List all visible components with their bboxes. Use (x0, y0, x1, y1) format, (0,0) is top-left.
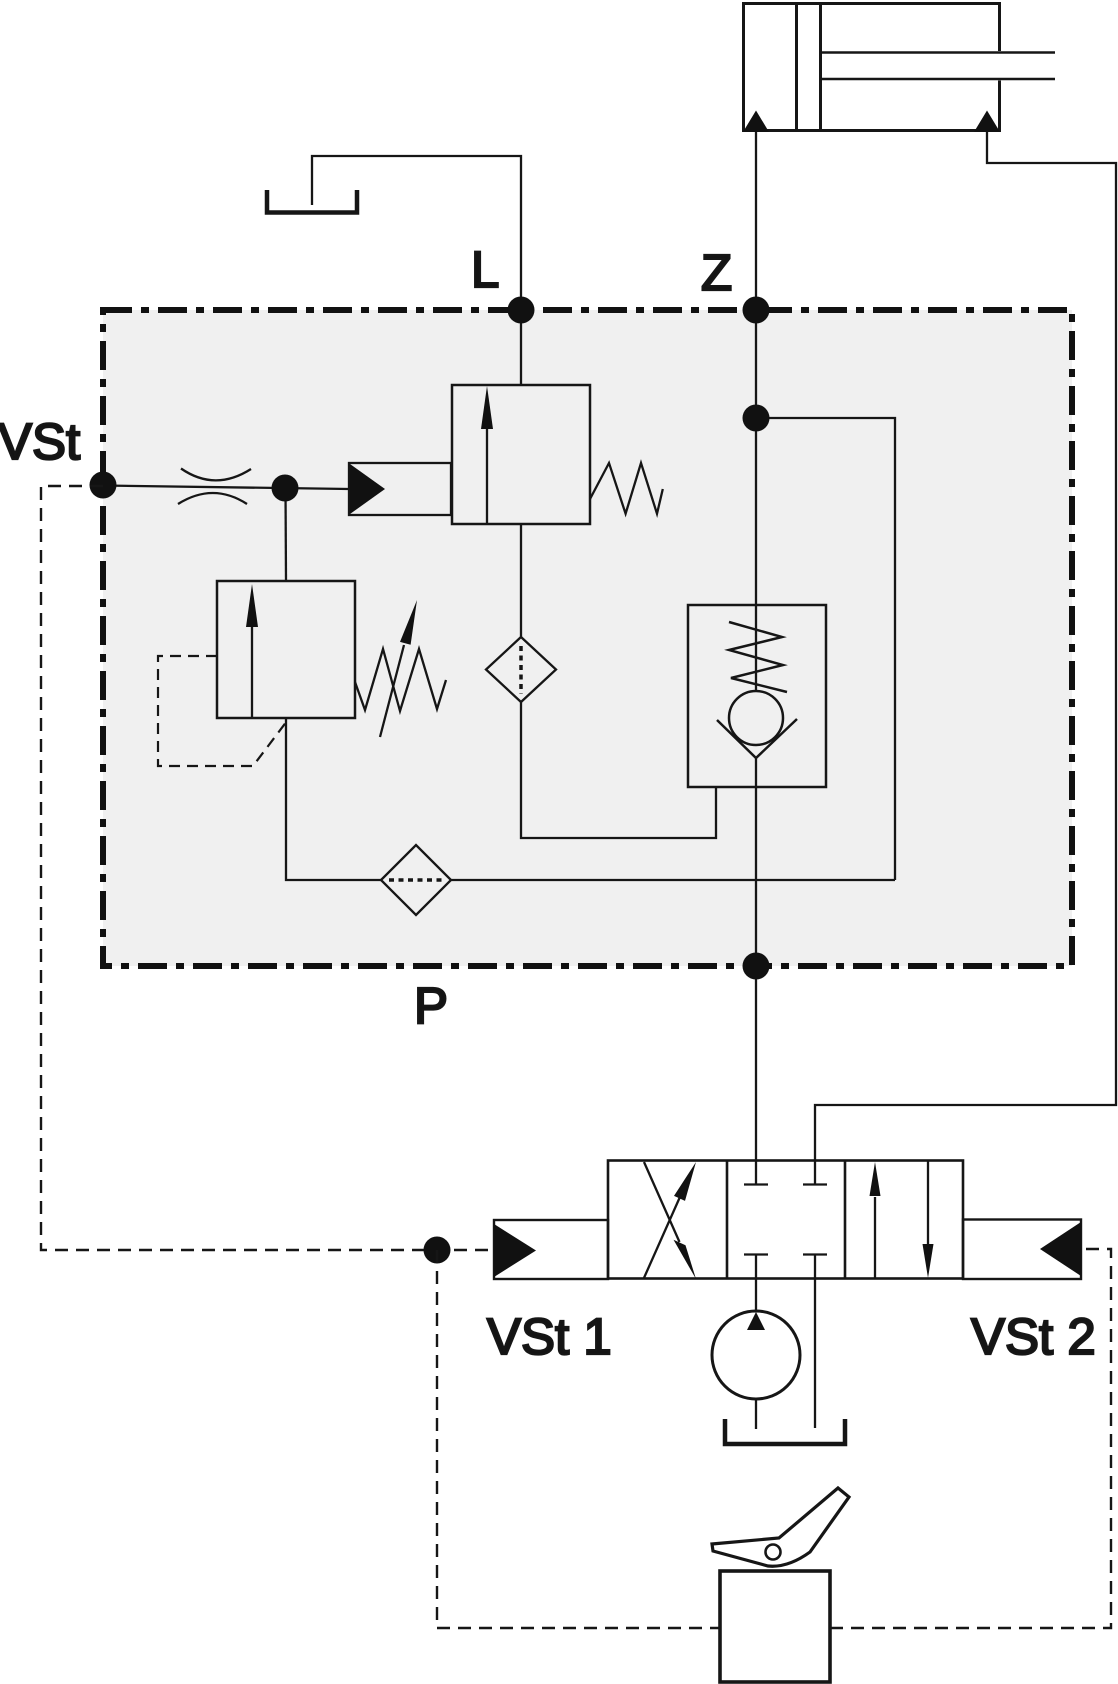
2/2 proportional seat valve V1 body (452, 385, 590, 524)
cylinder C1 right port arrow (974, 111, 1000, 133)
wire: bypass bottom run to relief valve (286, 718, 895, 880)
valve V3 ball (729, 691, 783, 745)
node: port Z junction dot (743, 297, 770, 324)
pressure relief valve V2 body (217, 581, 355, 718)
node: port L junction dot (508, 297, 535, 324)
wire: cylinder left port down to port Z (755, 132, 757, 310)
pilot actuator (triangle in box) of proportional valve (349, 463, 451, 515)
valve V2 flow arrow (251, 622, 253, 718)
wire: cylinder right port to directional valve right top (815, 132, 1116, 1160)
wire: pilot line VSt to pilot actuator (103, 486, 349, 490)
valve V1 flow arrow (486, 424, 488, 524)
control block enclosure (gray dash-dot box) (103, 310, 1072, 966)
cylinder C1 piston rod (822, 53, 1055, 80)
solenoid VSt2 (right) (963, 1220, 1081, 1280)
pilot dashed line junction to lever box (437, 1250, 720, 1628)
svg-text:L: L (471, 241, 499, 298)
pilot dashed line VSt to solenoid VSt1 (41, 486, 494, 1250)
svg-text:VSt 2: VSt 2 (971, 1308, 1096, 1365)
pump P1 (712, 1311, 800, 1399)
cylinder C1 left port arrow (743, 111, 769, 133)
throttle (restrictor) on pilot line (178, 469, 251, 505)
filter F1 (diamond, dotted) (486, 637, 556, 702)
svg-text:VSt 1: VSt 1 (487, 1308, 612, 1365)
node: Z branch junction dot (743, 405, 770, 432)
pilot dashed line lever box to solenoid VSt2 (830, 1249, 1111, 1628)
svg-text:Z: Z (701, 244, 732, 301)
svg-text:P: P (414, 977, 448, 1034)
lever pivot (766, 1545, 781, 1560)
valve V3 spring (729, 622, 787, 692)
svg-text:VSt: VSt (0, 413, 80, 470)
wire: port L up to drain tank (312, 156, 521, 310)
valve V2 pilot dashed line (158, 656, 287, 766)
cylinder C1 body (742, 2, 1001, 131)
4/3 directional control valve V4 body (608, 1161, 963, 1279)
tank T1 (725, 1419, 845, 1444)
wire: filter F1 to check valve bottom port (521, 702, 716, 838)
wire: valve V4 to pump (755, 1279, 757, 1311)
node: pilot junction dot (272, 475, 299, 502)
wire: Z junction through check valve down to port P and directional valve (755, 418, 757, 1160)
wire: pump to tank (755, 1399, 757, 1429)
wire: valve V4 to tank (814, 1279, 816, 1428)
node: port VSt dot (90, 472, 117, 499)
wire: bypass from Z junction right and down (756, 418, 895, 880)
valve V1 spring (590, 463, 663, 514)
valve V4 right position parallel arrows (874, 1197, 876, 1279)
wire: L port to valve V1 top (520, 310, 522, 385)
valve V2 spring (adjustable) (355, 649, 446, 711)
lever actuator box (720, 1571, 830, 1682)
wire: pilot node down to relief valve top (284, 488, 287, 581)
valve V2 adjustment arrow (380, 645, 404, 737)
check valve V3 (spring loaded) body (688, 605, 826, 787)
filter F2 (diamond, dotted) on bypass (381, 845, 451, 915)
wire: valve V1 bottom to filter F1 (520, 524, 522, 637)
valve V4 centre position blocked ports (744, 1160, 827, 1185)
hand lever (712, 1488, 849, 1566)
solenoid VSt1 (left) (494, 1220, 608, 1279)
node: pilot junction dot at solenoid VSt1 (424, 1237, 451, 1264)
drain tank (top left) (267, 190, 357, 213)
node: port P dot (743, 953, 770, 980)
valve V4 left position crossed arrows (644, 1162, 680, 1279)
valve V3 seat (717, 719, 797, 758)
wire: port Z down to Z junction node (755, 310, 757, 418)
